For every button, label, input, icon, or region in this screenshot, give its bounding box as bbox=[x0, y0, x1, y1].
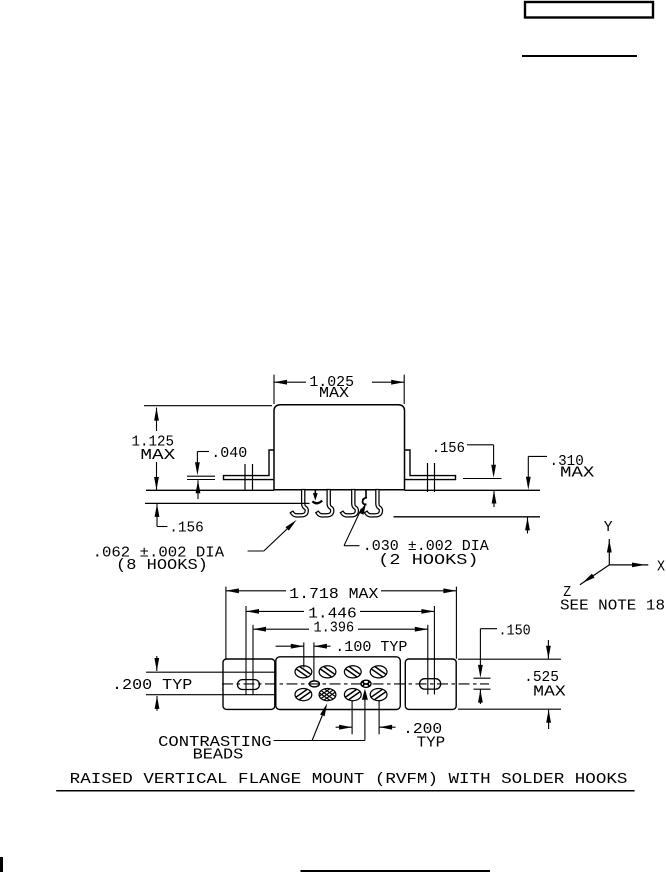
svg-text:1.718 MAX: 1.718 MAX bbox=[289, 586, 378, 603]
left mounting flange (side view L-bracket) bbox=[224, 450, 275, 480]
svg-text:.150: .150 bbox=[499, 623, 531, 640]
svg-text:(2 HOOKS): (2 HOOKS) bbox=[378, 552, 478, 569]
svg-text:MAX: MAX bbox=[319, 385, 349, 402]
dimension 1.446 bbox=[245, 606, 247, 695]
solder hook 4 (side view, .062 dia) bbox=[364, 490, 382, 518]
page edge mark bbox=[0, 857, 3, 872]
dimension 1.125 MAX (body height) bbox=[144, 405, 272, 407]
small solder hook B (side view, .030 dia) bbox=[365, 490, 367, 498]
small solder hook A (side view, .030 dia) bbox=[314, 490, 316, 495]
relay body (side view) bbox=[274, 405, 405, 490]
svg-text:X: X bbox=[657, 558, 665, 575]
right mounting flange (side view L-bracket) bbox=[405, 450, 456, 480]
footer rule bbox=[301, 870, 491, 872]
hook 1 land (bottom view, bottom row) bbox=[295, 689, 312, 701]
svg-text:.156: .156 bbox=[432, 440, 465, 457]
solder hook 3 (side view, .062 dia) bbox=[340, 490, 358, 518]
dimension 1.718 MAX (overall length) bbox=[225, 587, 227, 659]
hook 4 land (bottom view, bottom row) bbox=[370, 689, 387, 701]
seating plane line right bbox=[405, 489, 541, 491]
dimension .100 TYP (hook pitch) bbox=[303, 642, 305, 667]
svg-text:.156: .156 bbox=[169, 520, 204, 537]
dimension 1.396 bbox=[252, 625, 254, 695]
dimension .156 (left, seating plane to hook exit) bbox=[155, 504, 160, 517]
left flange hole centerline ticks bbox=[244, 464, 246, 490]
svg-text:SEE NOTE 18: SEE NOTE 18 bbox=[560, 598, 665, 615]
hook exit plane line (left) bbox=[145, 502, 310, 504]
hook 3 land (bottom view, bottom row) bbox=[344, 689, 361, 701]
dimension .200 TYP (bottom, hook spacing) bbox=[351, 701, 353, 734]
svg-text:.200 TYP: .200 TYP bbox=[112, 677, 192, 694]
solder hook 1 (side view, .062 dia) bbox=[290, 490, 308, 518]
left flange slot (oval hole) bbox=[238, 680, 260, 690]
svg-text:Y: Y bbox=[604, 519, 613, 536]
coordinate triad origin/axes bbox=[608, 539, 610, 565]
svg-text:TYP: TYP bbox=[417, 735, 446, 752]
dimension .525 MAX (flange width) bbox=[458, 658, 561, 660]
hook 1 land (bottom view, top row) bbox=[295, 666, 312, 678]
dimension .150 (slot width) leader bbox=[480, 628, 497, 630]
hook 4 land (bottom view, top row) bbox=[370, 666, 387, 678]
hook bottom plane line (right) bbox=[394, 516, 541, 518]
dimension .310 MAX (seating plane to hook bottom) bbox=[528, 455, 547, 457]
solder hook 2 (side view, .062 dia) bbox=[316, 490, 334, 518]
svg-text:MAX: MAX bbox=[560, 464, 594, 481]
small hook B (bottom view, .030 crosshatched) bbox=[361, 680, 371, 687]
bottom view: center body outline bbox=[276, 657, 401, 710]
title block box (top right, empty) bbox=[525, 2, 653, 18]
hook 3 land (bottom view, top row) bbox=[344, 666, 361, 678]
right flange slot (oval hole) bbox=[420, 679, 441, 689]
horizontal centerline (dash-dot) bbox=[222, 683, 489, 685]
caption underline bbox=[56, 790, 634, 792]
svg-text:BEADS: BEADS bbox=[193, 746, 244, 763]
hook 2 land (bottom view, top row) bbox=[319, 666, 336, 678]
svg-text:RAISED VERTICAL FLANGE MOUNT (: RAISED VERTICAL FLANGE MOUNT (RVFM) WITH… bbox=[70, 771, 628, 788]
.200 TYP (left) row extension lines bbox=[146, 671, 275, 673]
small hook A (bottom view, .030 oval) bbox=[309, 681, 319, 687]
svg-text:MAX: MAX bbox=[533, 684, 566, 701]
seating plane line left bbox=[146, 489, 274, 491]
dimension .040 (flange foot thickness) bbox=[197, 451, 209, 453]
svg-text:.100 TYP: .100 TYP bbox=[335, 639, 407, 656]
svg-text:(8 HOOKS): (8 HOOKS) bbox=[116, 557, 208, 574]
svg-text:1.396: 1.396 bbox=[314, 620, 355, 637]
svg-text:MAX: MAX bbox=[140, 447, 175, 464]
bottom view: left flange plate bbox=[223, 659, 275, 709]
header rule line bbox=[522, 55, 637, 57]
bottom view: right flange plate bbox=[405, 659, 456, 709]
contrasting bead hook 2 land (bottom view, bottom row) bbox=[319, 689, 336, 701]
dimension 1.025 MAX (body width) bbox=[273, 375, 275, 404]
right flange hole centerline ticks bbox=[427, 463, 429, 492]
svg-text:.040: .040 bbox=[211, 445, 247, 462]
